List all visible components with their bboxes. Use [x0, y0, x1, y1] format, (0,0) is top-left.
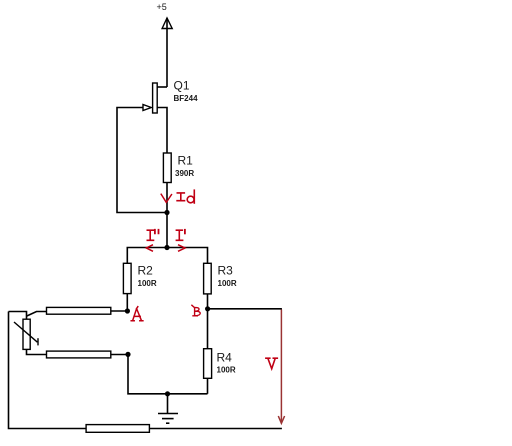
svg-text:R4: R4: [217, 351, 233, 365]
svg-text:R1: R1: [178, 154, 194, 168]
svg-text:100R: 100R: [218, 279, 237, 288]
svg-text:Q1: Q1: [174, 79, 190, 93]
svg-text:BF244: BF244: [174, 94, 199, 103]
svg-text:R2: R2: [138, 264, 154, 278]
svg-text:100R: 100R: [138, 279, 157, 288]
svg-text:+5: +5: [157, 2, 167, 12]
svg-text:390R: 390R: [175, 169, 194, 178]
svg-text:R3: R3: [218, 264, 234, 278]
svg-text:100R: 100R: [217, 366, 236, 375]
